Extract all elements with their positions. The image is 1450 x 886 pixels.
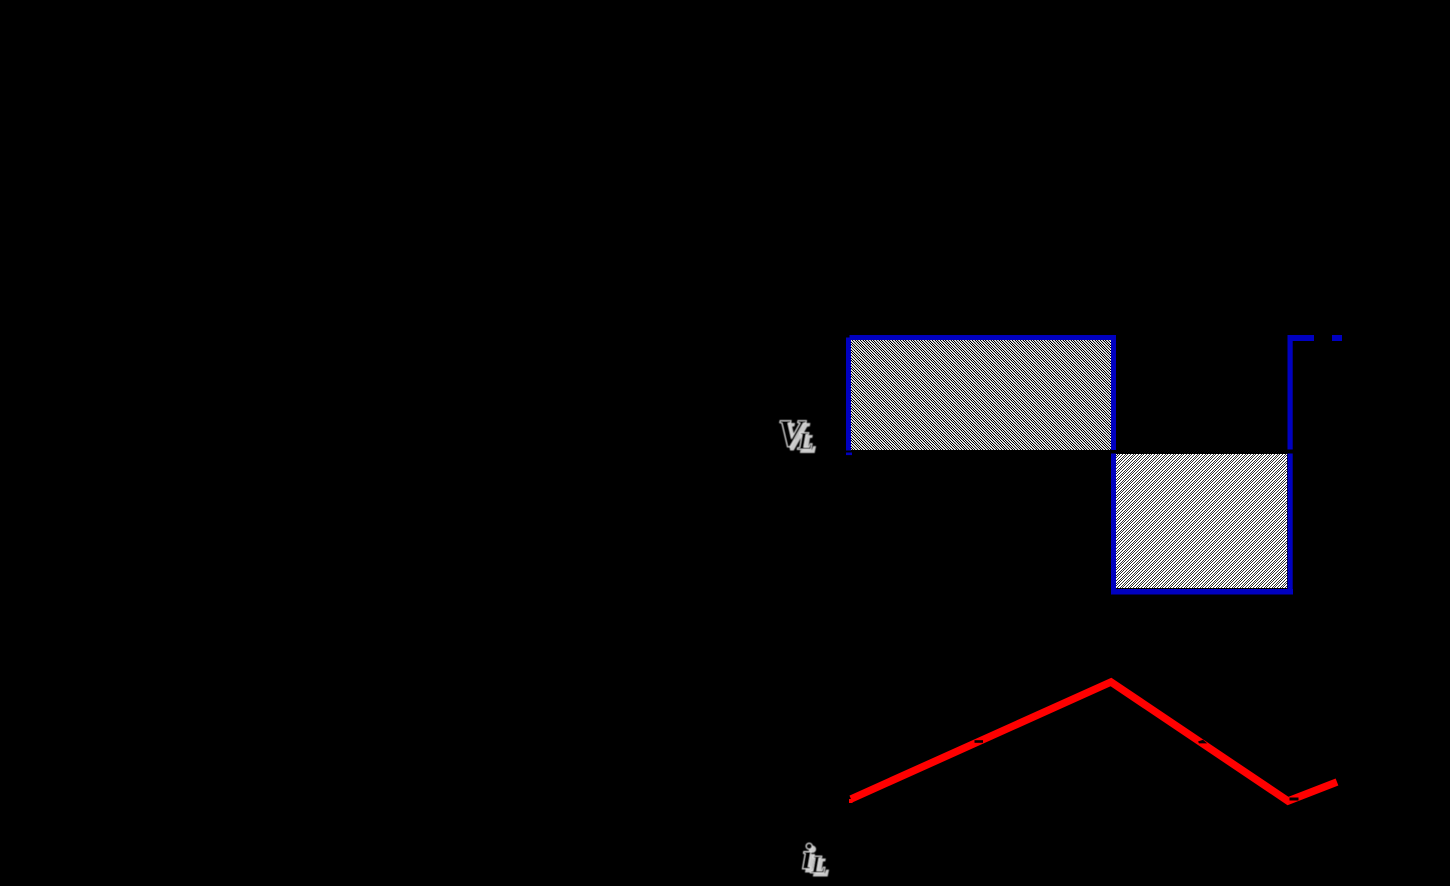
wire vL rising edge at Ts (above axis) xyxy=(1288,335,1293,450)
wire vL next period top segment xyxy=(1288,335,1314,341)
svg-text:L: L xyxy=(810,853,826,879)
wire vL dashed continuation xyxy=(1332,335,1342,341)
notch slope label leader on falling segment xyxy=(1198,740,1207,744)
node iL start tick xyxy=(849,799,853,803)
wire vL falling edge at DTs (below axis) xyxy=(1111,454,1116,595)
wire vL rising edge at Ts (below axis) xyxy=(1288,454,1293,595)
wire vL stub below axis at t=0 xyxy=(846,453,852,456)
corner notch (black) at start of top level xyxy=(846,335,850,338)
wire vL falling edge at DTs (above axis) xyxy=(1111,335,1116,450)
waveform iL triangle xyxy=(851,682,1337,801)
wire vL bottom level -V xyxy=(1111,589,1293,595)
label vL xyxy=(778,413,816,458)
label iL xyxy=(802,837,829,882)
svg-text:L: L xyxy=(797,429,813,455)
positive volt-second area fill + hatch xyxy=(851,340,1111,450)
negative volt-second area fill + hatch xyxy=(1114,454,1287,588)
wire vL top level Vg-V xyxy=(846,335,1116,340)
node iL valley tick xyxy=(1285,799,1289,803)
notch at iL valley xyxy=(1290,798,1299,801)
wire vL rising edge at t=0 xyxy=(846,335,851,451)
notch slope label leader on rising segment xyxy=(975,740,984,743)
